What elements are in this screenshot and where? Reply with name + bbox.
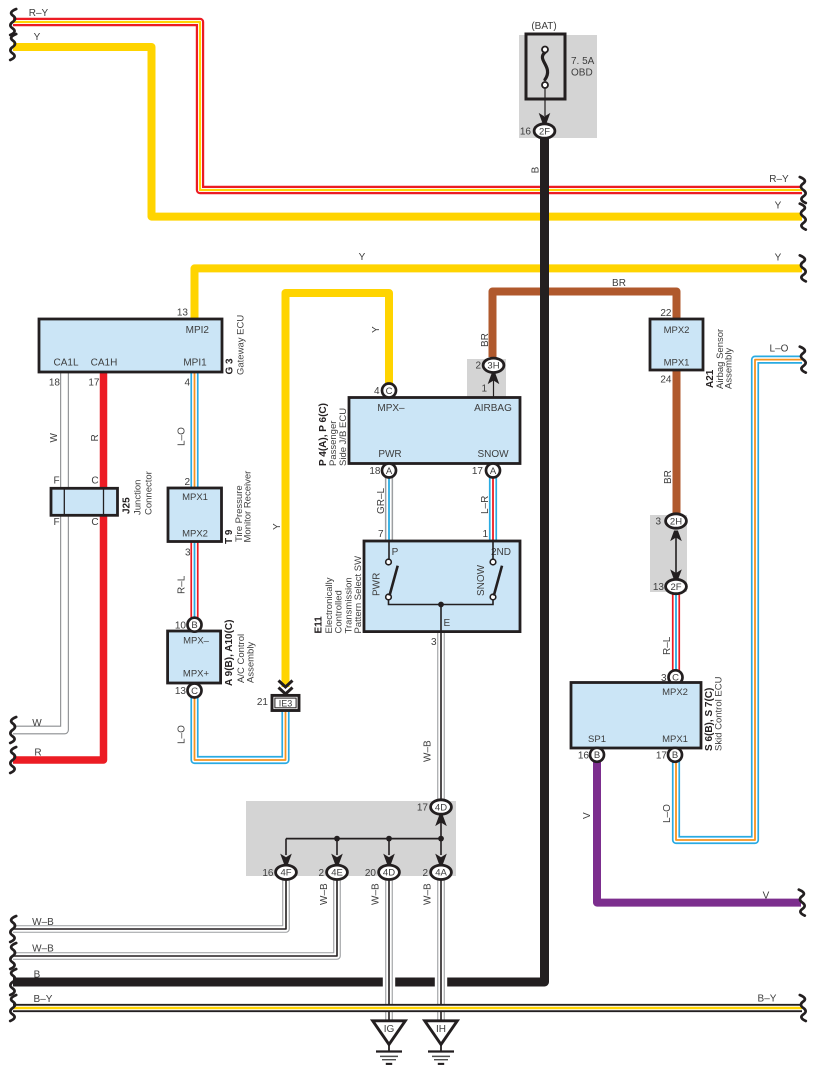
svg-text:SP1: SP1 bbox=[588, 734, 606, 745]
svg-text:1: 1 bbox=[482, 529, 488, 540]
svg-text:Gateway ECU: Gateway ECU bbox=[236, 315, 247, 375]
svg-text:W–B: W–B bbox=[371, 883, 382, 905]
svg-text:B: B bbox=[191, 620, 197, 631]
svg-text:4F: 4F bbox=[280, 868, 291, 879]
svg-text:10: 10 bbox=[175, 620, 187, 631]
svg-text:C: C bbox=[191, 686, 198, 697]
svg-text:2H: 2H bbox=[670, 516, 682, 527]
svg-text:Junction: Junction bbox=[133, 480, 144, 515]
svg-text:L–R: L–R bbox=[480, 496, 491, 514]
svg-text:C: C bbox=[386, 386, 393, 397]
svg-text:MPX1: MPX1 bbox=[182, 492, 208, 503]
svg-text:MPI2: MPI2 bbox=[186, 325, 210, 336]
svg-text:(BAT): (BAT) bbox=[531, 21, 556, 32]
svg-text:4D: 4D bbox=[383, 868, 395, 879]
svg-text:3: 3 bbox=[185, 548, 191, 559]
svg-text:22: 22 bbox=[660, 308, 672, 319]
svg-text:Skid Control ECU: Skid Control ECU bbox=[714, 676, 725, 751]
svg-text:2: 2 bbox=[422, 868, 428, 879]
svg-text:Y: Y bbox=[775, 201, 782, 212]
svg-text:16: 16 bbox=[262, 868, 274, 879]
svg-text:W–B: W–B bbox=[32, 944, 54, 955]
svg-text:IH: IH bbox=[436, 1024, 446, 1035]
svg-text:C: C bbox=[91, 476, 98, 487]
svg-text:A: A bbox=[386, 466, 393, 477]
svg-text:Assembly: Assembly bbox=[246, 642, 257, 683]
svg-text:18: 18 bbox=[49, 378, 61, 389]
svg-text:Y: Y bbox=[34, 32, 41, 43]
svg-text:MPX–: MPX– bbox=[183, 636, 210, 647]
svg-text:B: B bbox=[531, 166, 542, 173]
svg-text:R: R bbox=[34, 748, 41, 759]
svg-text:2: 2 bbox=[318, 868, 324, 879]
svg-text:3H: 3H bbox=[487, 361, 499, 372]
svg-text:17: 17 bbox=[417, 803, 429, 814]
svg-text:BR: BR bbox=[663, 470, 674, 484]
svg-text:P: P bbox=[392, 547, 399, 558]
svg-text:B–Y: B–Y bbox=[34, 994, 53, 1005]
svg-text:G 3: G 3 bbox=[225, 358, 236, 375]
svg-text:2ND: 2ND bbox=[491, 547, 511, 558]
svg-text:L–O: L–O bbox=[177, 427, 188, 446]
svg-text:Monitor Receiver: Monitor Receiver bbox=[243, 471, 254, 543]
svg-text:B–Y: B–Y bbox=[758, 994, 777, 1005]
svg-text:13: 13 bbox=[175, 686, 187, 697]
svg-text:13: 13 bbox=[177, 308, 189, 319]
svg-text:4E: 4E bbox=[331, 868, 343, 879]
svg-text:R: R bbox=[90, 434, 101, 441]
svg-text:AIRBAG: AIRBAG bbox=[474, 403, 512, 414]
svg-text:Y: Y bbox=[272, 523, 283, 530]
svg-text:W: W bbox=[32, 718, 42, 729]
svg-text:1: 1 bbox=[481, 384, 487, 395]
svg-text:J25: J25 bbox=[122, 497, 133, 514]
svg-text:F: F bbox=[53, 517, 59, 528]
svg-text:7. 5A: 7. 5A bbox=[571, 56, 595, 67]
svg-text:2: 2 bbox=[184, 477, 190, 488]
svg-text:W–B: W–B bbox=[423, 740, 434, 762]
svg-text:OBD: OBD bbox=[571, 68, 593, 79]
svg-text:16: 16 bbox=[520, 127, 532, 138]
svg-text:V: V bbox=[582, 812, 593, 819]
svg-text:W–B: W–B bbox=[319, 883, 330, 905]
svg-text:BR: BR bbox=[612, 278, 626, 289]
svg-text:21: 21 bbox=[257, 697, 269, 708]
svg-text:MPX1: MPX1 bbox=[662, 734, 688, 745]
svg-text:4D: 4D bbox=[435, 802, 447, 813]
svg-text:IG: IG bbox=[384, 1024, 395, 1035]
svg-text:W: W bbox=[49, 433, 60, 443]
svg-text:W–B: W–B bbox=[32, 917, 54, 928]
svg-text:2F: 2F bbox=[670, 582, 681, 593]
svg-text:MPX2: MPX2 bbox=[182, 529, 208, 540]
svg-text:3: 3 bbox=[655, 517, 661, 528]
svg-text:17: 17 bbox=[656, 750, 668, 761]
svg-text:4: 4 bbox=[374, 386, 380, 397]
svg-text:IE3: IE3 bbox=[279, 699, 293, 709]
svg-text:E: E bbox=[444, 618, 451, 629]
svg-text:PWR: PWR bbox=[372, 573, 383, 596]
svg-text:7: 7 bbox=[378, 529, 384, 540]
svg-text:13: 13 bbox=[653, 582, 665, 593]
svg-text:Connector: Connector bbox=[144, 471, 155, 515]
svg-text:CA1L: CA1L bbox=[53, 358, 78, 369]
svg-text:A 9(B), A10(C): A 9(B), A10(C) bbox=[224, 620, 235, 686]
svg-text:R–Y: R–Y bbox=[29, 8, 49, 19]
svg-text:16: 16 bbox=[578, 750, 590, 761]
svg-text:3: 3 bbox=[431, 637, 437, 648]
svg-text:MPX–: MPX– bbox=[377, 403, 405, 414]
svg-text:L–O: L–O bbox=[662, 804, 673, 823]
svg-text:18: 18 bbox=[369, 466, 381, 477]
svg-text:Side J/B ECU: Side J/B ECU bbox=[338, 408, 349, 466]
svg-text:F: F bbox=[53, 476, 59, 487]
svg-text:20: 20 bbox=[365, 868, 377, 879]
svg-text:17: 17 bbox=[88, 378, 100, 389]
svg-text:GR–L: GR–L bbox=[376, 487, 387, 514]
svg-text:MPX2: MPX2 bbox=[662, 687, 688, 698]
svg-text:Y: Y bbox=[359, 252, 366, 263]
svg-text:B: B bbox=[594, 750, 600, 761]
svg-text:E11: E11 bbox=[314, 616, 325, 634]
svg-text:R–L: R–L bbox=[662, 636, 673, 655]
svg-text:Y: Y bbox=[371, 326, 382, 333]
svg-text:W–B: W–B bbox=[423, 883, 434, 905]
svg-text:4: 4 bbox=[184, 378, 190, 389]
svg-text:CA1H: CA1H bbox=[91, 358, 118, 369]
svg-text:PWR: PWR bbox=[378, 449, 401, 460]
svg-text:SNOW: SNOW bbox=[477, 449, 509, 460]
svg-text:Y: Y bbox=[775, 253, 782, 264]
svg-text:C: C bbox=[91, 517, 98, 528]
svg-text:MPX+: MPX+ bbox=[183, 669, 210, 680]
svg-text:BR: BR bbox=[480, 333, 491, 347]
svg-text:A: A bbox=[490, 466, 497, 477]
svg-text:MPI1: MPI1 bbox=[183, 358, 207, 369]
svg-text:MPX1: MPX1 bbox=[664, 358, 690, 369]
svg-text:L–O: L–O bbox=[770, 344, 789, 355]
svg-text:SNOW: SNOW bbox=[476, 564, 487, 596]
svg-text:Pattern Select SW: Pattern Select SW bbox=[353, 556, 364, 634]
svg-text:R–L: R–L bbox=[177, 575, 188, 594]
svg-text:R–Y: R–Y bbox=[769, 174, 789, 185]
svg-text:MPX2: MPX2 bbox=[664, 325, 690, 336]
svg-text:L–O: L–O bbox=[177, 725, 188, 744]
svg-text:2: 2 bbox=[475, 361, 481, 372]
svg-text:4A: 4A bbox=[435, 868, 447, 879]
svg-text:B: B bbox=[672, 750, 678, 761]
svg-text:B: B bbox=[34, 970, 41, 981]
svg-text:V: V bbox=[763, 891, 770, 902]
svg-text:Assembly: Assembly bbox=[724, 348, 735, 389]
svg-text:24: 24 bbox=[660, 375, 672, 386]
svg-text:2F: 2F bbox=[539, 126, 550, 137]
svg-text:17: 17 bbox=[472, 466, 484, 477]
